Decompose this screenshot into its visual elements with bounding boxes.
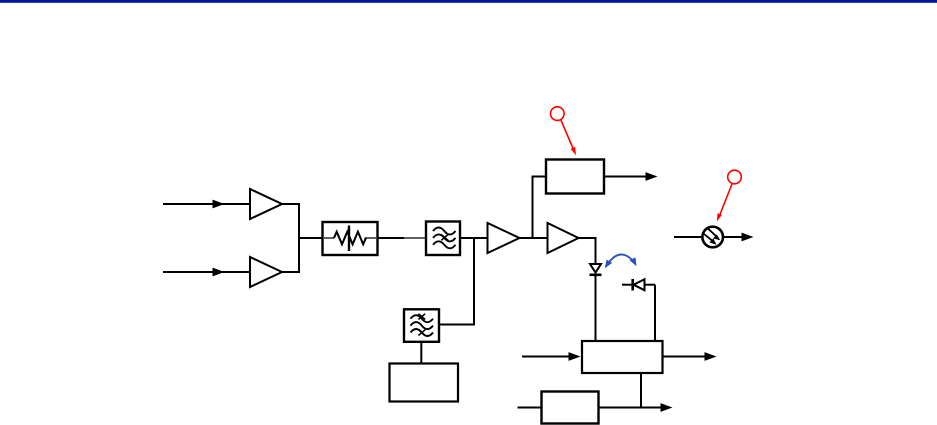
block B3 — [542, 392, 599, 424]
filter F2 cross on bottom wave — [418, 330, 425, 336]
wire B3 output arrow — [599, 403, 673, 412]
block B1 — [546, 160, 604, 194]
wire attenuator input — [674, 236, 703, 238]
resistor R1 zigzag — [334, 232, 366, 245]
callout arrow 1 — [561, 120, 576, 156]
block B2 — [582, 341, 663, 373]
wire B3 input — [518, 407, 542, 409]
amplifier A2 — [250, 257, 282, 287]
resistor R1 leads — [324, 237, 376, 239]
filter F1 waves — [433, 228, 456, 249]
callout circle 2 — [728, 170, 742, 184]
diode D2 — [622, 279, 655, 291]
amplifier A3 — [488, 223, 520, 253]
filter F2 cross on top wave — [418, 314, 425, 320]
wire B2 input arrow — [522, 352, 581, 361]
wire A4 to D1 — [578, 238, 596, 264]
wire combiner — [281, 204, 323, 272]
filter F2 box — [404, 309, 439, 342]
block B4 — [390, 364, 459, 402]
callout circle 1 — [551, 107, 565, 121]
variable attenuator AT1 — [702, 227, 723, 248]
wire input 1 with arrowhead — [163, 200, 250, 209]
varactor diode D1 — [590, 264, 602, 275]
wire attenuator output arrow — [723, 233, 754, 242]
resistor box R1 — [323, 222, 378, 255]
wire B2 output arrow — [663, 352, 717, 361]
wire F2 to box below — [420, 342, 422, 364]
wire D2 to B2 — [654, 285, 656, 342]
filter F1 box — [426, 222, 460, 256]
callout arrow 2 — [717, 184, 732, 222]
wire junction down to F2 — [440, 238, 475, 325]
filter F2 waves — [411, 315, 434, 336]
wire R1 to F1 — [378, 237, 427, 239]
wire A3 to A4 — [519, 237, 548, 239]
wire input 2 with arrowhead — [163, 268, 250, 277]
wire D1 to B2 — [595, 275, 597, 342]
amplifier A1 — [250, 189, 282, 219]
wire B2 bottom to output line — [640, 373, 642, 408]
amplifier A4 — [548, 223, 579, 253]
wire F1 to A3 — [460, 237, 488, 239]
tuning arrow (blue, double-headed arc) — [605, 254, 637, 268]
wire branch up to B1 — [533, 177, 547, 239]
wire B1 output arrow — [604, 172, 658, 181]
filter F1 cross on middle wave — [441, 235, 448, 241]
resistor R1 strike bar — [348, 226, 350, 252]
